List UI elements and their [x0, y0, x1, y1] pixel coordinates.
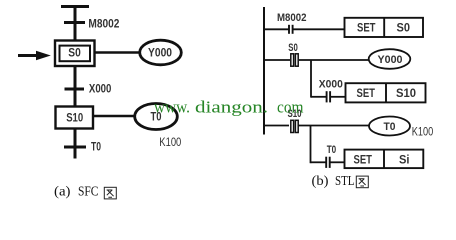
rung 1 wire right [293, 28, 345, 30]
label K100 [159, 135, 181, 149]
svg-text:M8002: M8002 [277, 12, 307, 24]
caption glyph tu (diagram) [104, 187, 116, 199]
svg-text:S10: S10 [66, 113, 83, 125]
label SET (S0 box) [357, 23, 376, 35]
svg-text:SET: SET [354, 154, 373, 166]
branch wire to T0 contact [311, 161, 326, 163]
wire S10 to T0 coil [93, 115, 135, 118]
label T0 branch [327, 144, 337, 156]
label S0 (box) [397, 23, 411, 35]
contact X000 [327, 91, 331, 102]
transition T0 tick [64, 146, 86, 149]
svg-text:X000: X000 [319, 79, 343, 91]
svg-text:(b): (b) [312, 173, 329, 188]
junction to X000 branch [310, 60, 312, 98]
junction to T0 branch [310, 125, 312, 163]
rung 3 wire left [263, 125, 289, 127]
svg-text:diangon.: diangon. [195, 97, 268, 116]
label X000 [319, 79, 343, 91]
svg-text:SFC: SFC [78, 184, 99, 199]
power rail [263, 7, 265, 135]
caption (a) SFC [54, 184, 99, 199]
label SET (Si box) [354, 154, 373, 166]
svg-text:S10: S10 [396, 88, 416, 100]
instruction box SET S0 [345, 18, 424, 37]
coil Y000 right [369, 49, 411, 69]
branch wire to X000 contact [311, 96, 326, 98]
svg-text:K100: K100 [159, 135, 181, 149]
svg-text:T0: T0 [384, 121, 396, 133]
rung 1 wire left [263, 28, 289, 30]
label S10 (box) [396, 88, 416, 100]
label M8002 right [277, 12, 307, 24]
label M8002 [88, 16, 119, 30]
svg-text:T0: T0 [327, 144, 337, 156]
svg-text:S0: S0 [397, 23, 411, 35]
wire top start bar [61, 5, 89, 8]
label K100 right [412, 126, 434, 139]
label T0 transition [91, 142, 101, 154]
step S0 inner box [60, 46, 91, 62]
svg-text:Si: Si [399, 154, 410, 166]
svg-text:com: com [277, 97, 304, 116]
svg-text:X000: X000 [89, 84, 112, 96]
rung 2 wire right [299, 59, 369, 61]
arrow into S0 [18, 51, 51, 60]
label S0 [68, 48, 81, 60]
contact M8002 [289, 25, 293, 34]
coil T0 ellipse [135, 104, 178, 130]
svg-text:Y000: Y000 [148, 48, 172, 60]
label Si (box) [399, 154, 410, 166]
caption (b) STL [312, 173, 355, 188]
svg-text:SET: SET [357, 88, 376, 100]
wire S0 to Y000 [95, 51, 140, 54]
coil Y000 ellipse [140, 40, 182, 65]
svg-text:SET: SET [357, 23, 376, 35]
label Y000 right [378, 54, 403, 66]
STL contact S10 [291, 120, 298, 132]
instruction box SET Si [345, 150, 424, 169]
svg-text:www.: www. [154, 97, 190, 116]
label S10 contact [288, 108, 302, 120]
label S0 contact [288, 42, 298, 54]
label Y000 [148, 48, 172, 60]
svg-text:Y000: Y000 [378, 54, 403, 66]
svg-text:K100: K100 [412, 126, 434, 139]
label T0 [151, 112, 162, 124]
caption glyph tu (diagram) b [356, 176, 368, 188]
contact T0 [326, 157, 330, 168]
label T0 right coil [384, 121, 396, 133]
svg-text:(a): (a) [54, 184, 71, 199]
svg-text:S0: S0 [68, 48, 81, 60]
rung 3 wire right [299, 125, 370, 127]
wire S0 to S10 [74, 66, 77, 107]
instruction box SET S10 [346, 83, 426, 102]
label X000 [89, 84, 112, 96]
wire vertical M8002 [74, 5, 77, 41]
svg-text:M8002: M8002 [88, 16, 119, 30]
branch wire to SET Si [330, 161, 345, 163]
coil T0 right [369, 117, 410, 136]
transition M8002 tick [64, 21, 85, 24]
transition X000 tick [65, 88, 85, 91]
svg-text:STL: STL [335, 173, 355, 188]
STL contact S0 [291, 54, 298, 66]
watermark www.diangon.com [154, 97, 304, 116]
branch wire to SET S10 [330, 96, 345, 98]
svg-text:S0: S0 [288, 42, 298, 54]
step S10 box [56, 107, 94, 129]
step S0 outer box (initial step) [55, 41, 95, 67]
wire below S10 [74, 129, 77, 159]
label S10 [66, 113, 83, 125]
label SET (S10 box) [357, 88, 376, 100]
svg-text:T0: T0 [91, 142, 101, 154]
rung 2 wire left [263, 59, 290, 61]
